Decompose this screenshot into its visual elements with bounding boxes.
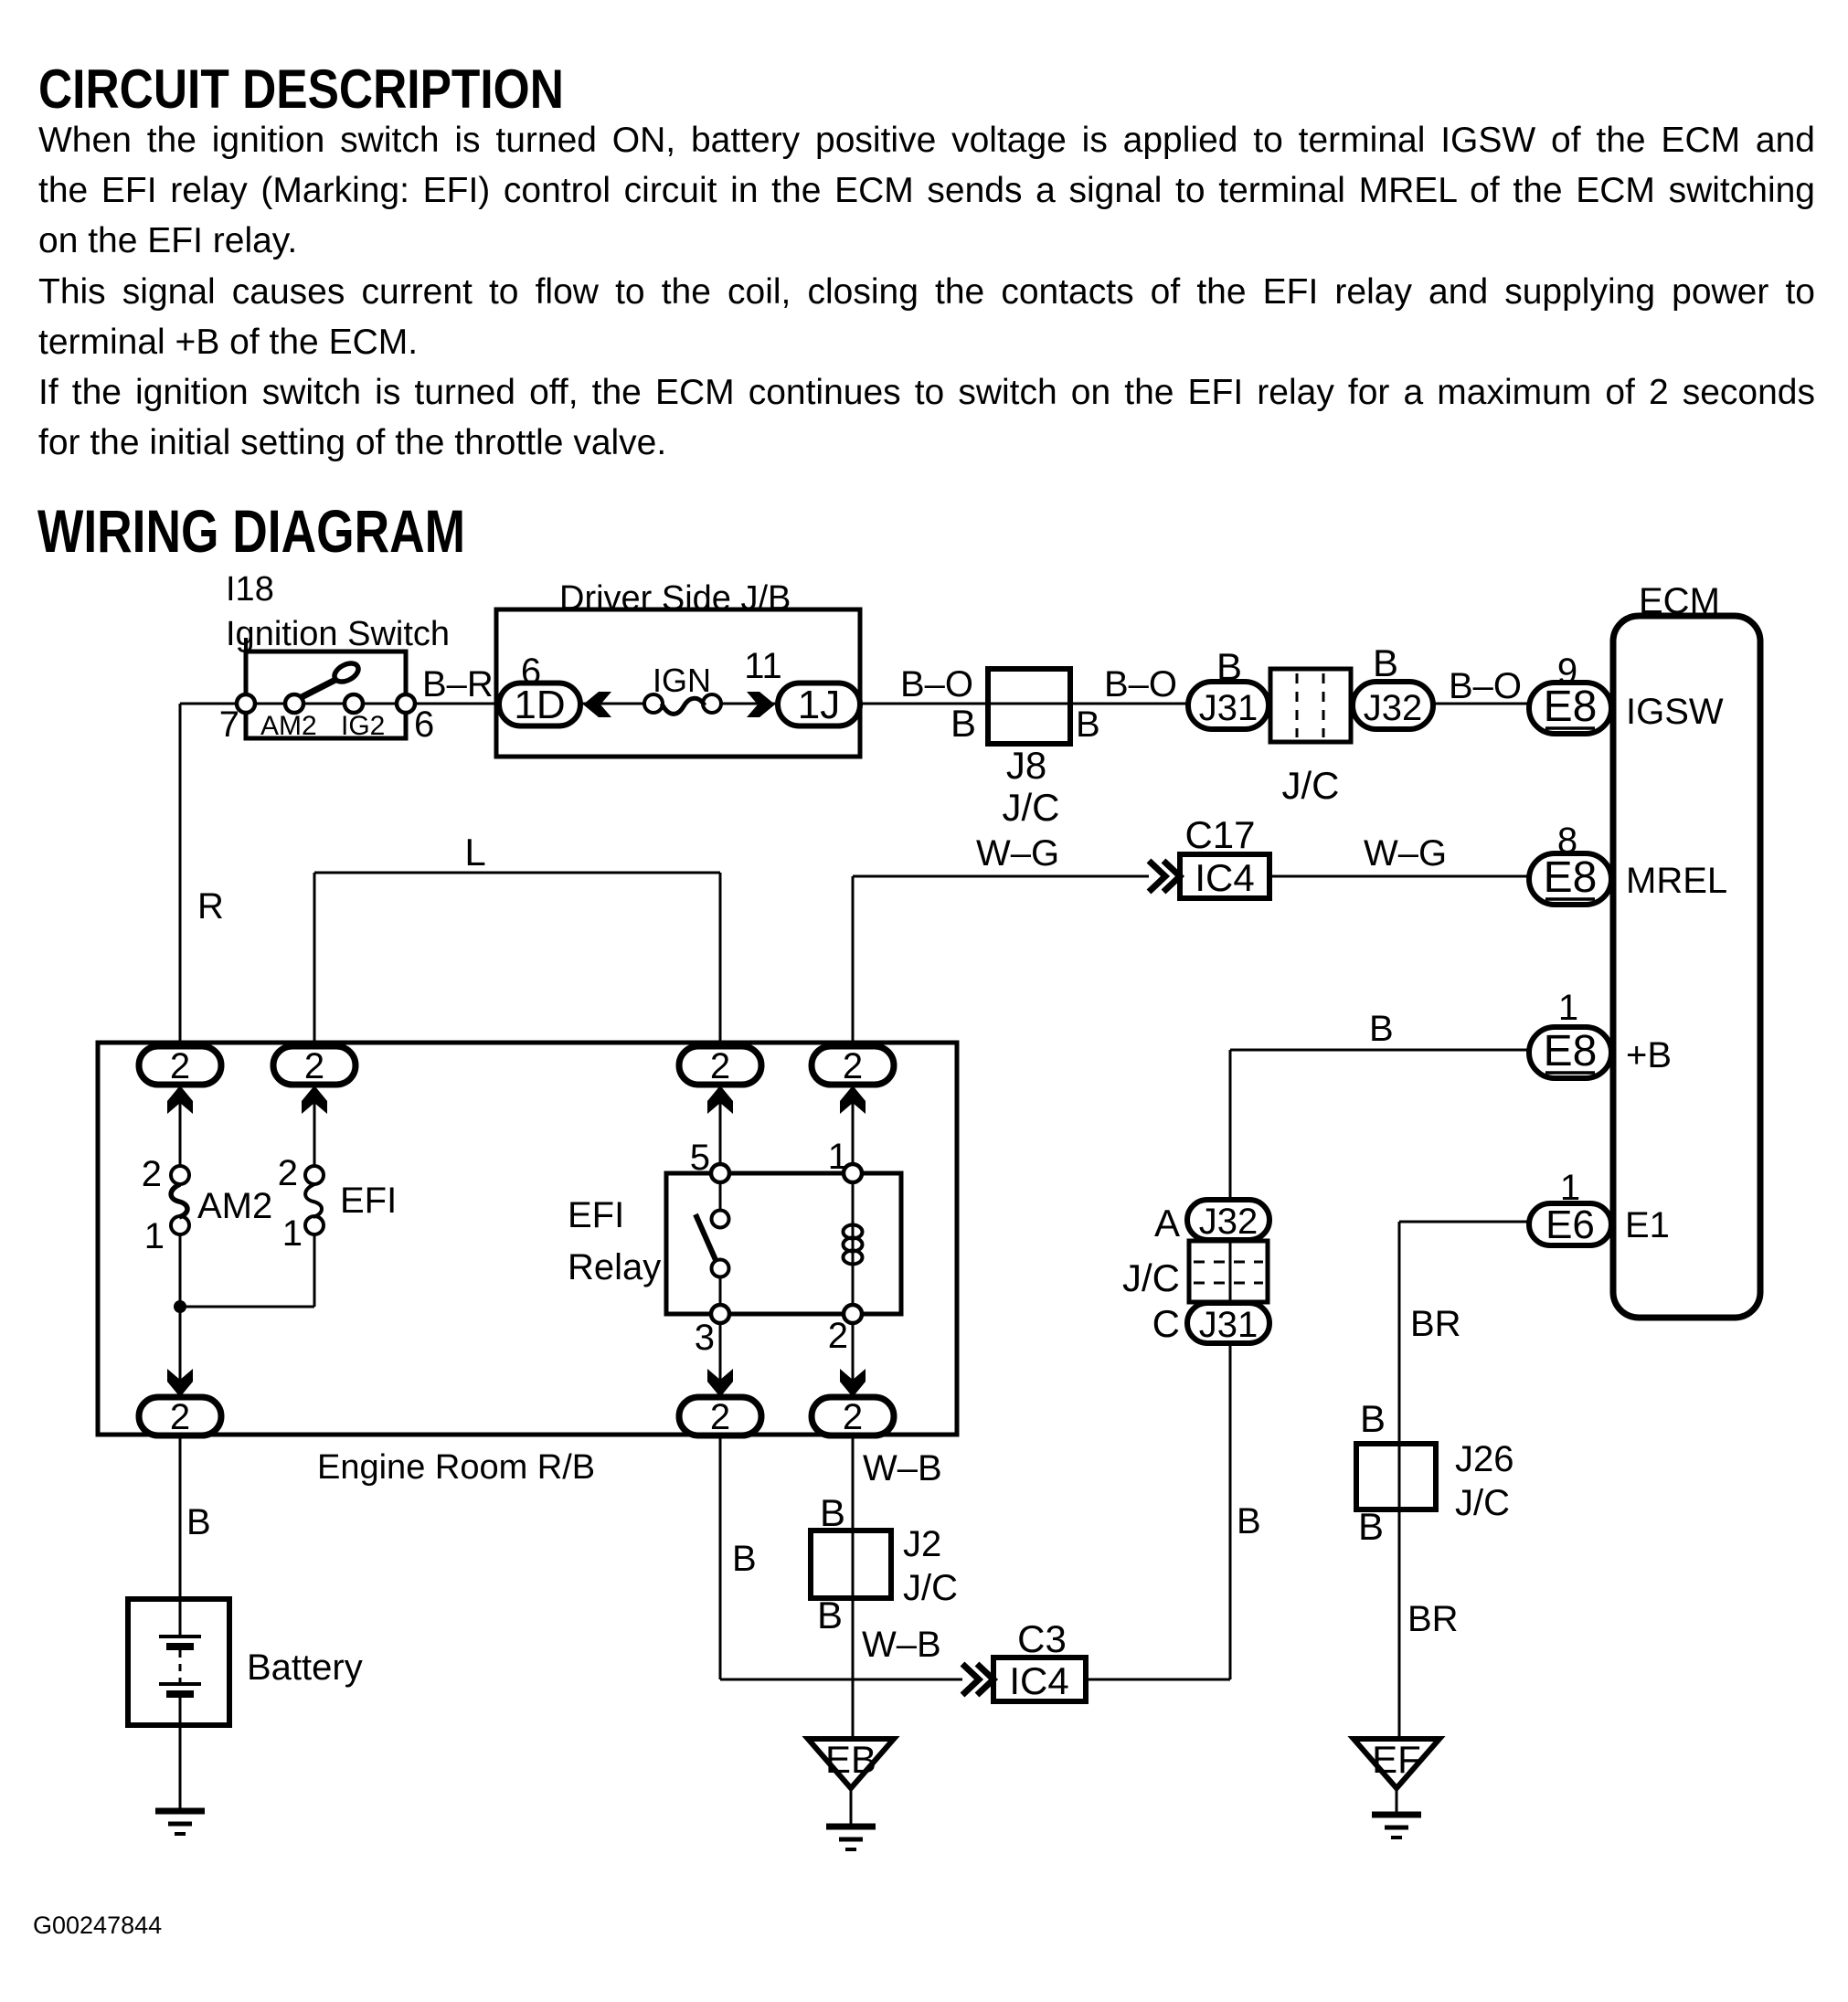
svg-text:J32: J32 [1364,688,1423,728]
svg-text:3: 3 [695,1318,715,1358]
svg-text:R: R [197,886,224,927]
svg-text:5: 5 [690,1138,710,1178]
svg-text:BR: BR [1410,1304,1461,1344]
svg-text:B–O: B–O [1104,664,1177,704]
svg-text:EF: EF [1372,1738,1421,1781]
svg-text:2: 2 [170,1397,190,1437]
svg-text:IGSW: IGSW [1626,692,1724,732]
svg-text:W–G: W–G [1364,833,1447,874]
svg-text:MREL: MREL [1626,861,1727,901]
svg-text:B: B [1373,641,1398,684]
svg-text:J26: J26 [1455,1439,1514,1479]
svg-text:W–B: W–B [863,1448,942,1488]
svg-text:B: B [1237,1501,1261,1541]
svg-text:B: B [732,1539,757,1579]
svg-text:2: 2 [142,1154,162,1194]
svg-text:Battery: Battery [247,1647,363,1688]
svg-text:J/C: J/C [1455,1483,1510,1523]
svg-text:W–G: W–G [976,833,1059,874]
svg-text:C: C [1152,1302,1180,1345]
svg-text:IC4: IC4 [1009,1659,1068,1702]
svg-text:I18: I18 [226,570,274,609]
svg-text:B: B [1360,1397,1386,1440]
svg-text:Relay: Relay [568,1247,661,1287]
svg-text:IGN: IGN [653,662,711,699]
svg-text:1: 1 [1560,1168,1580,1208]
svg-text:11: 11 [744,646,782,686]
svg-text:EB: EB [825,1738,876,1781]
svg-text:J/C: J/C [903,1568,958,1608]
svg-text:7: 7 [219,704,239,745]
svg-text:IC4: IC4 [1195,856,1254,899]
svg-text:J31: J31 [1199,688,1259,728]
svg-text:J32: J32 [1199,1202,1259,1242]
svg-text:E6: E6 [1545,1202,1595,1247]
svg-text:1J: 1J [798,683,840,727]
svg-text:2: 2 [170,1046,190,1086]
svg-text:8: 8 [1557,821,1577,861]
svg-text:L: L [464,831,485,874]
svg-text:J31: J31 [1199,1305,1259,1345]
svg-text:2: 2 [828,1316,848,1356]
svg-text:C17: C17 [1184,813,1255,856]
svg-text:AM2: AM2 [197,1186,272,1226]
svg-text:6: 6 [521,651,541,692]
svg-text:1: 1 [828,1137,848,1177]
svg-text:Ignition Switch: Ignition Switch [226,615,450,653]
svg-text:B: B [951,702,976,745]
svg-text:B–O: B–O [900,664,973,704]
svg-text:2: 2 [843,1046,863,1086]
svg-text:W–B: W–B [862,1625,941,1665]
svg-text:2: 2 [304,1046,324,1086]
svg-text:1: 1 [1558,988,1578,1028]
svg-text:6: 6 [414,704,434,745]
svg-text:1: 1 [144,1216,165,1256]
svg-text:9: 9 [1557,651,1577,692]
svg-text:J/C: J/C [1122,1256,1180,1299]
svg-text:Engine Room R/B: Engine Room R/B [317,1448,595,1487]
svg-text:BR: BR [1407,1599,1459,1639]
svg-text:AM2: AM2 [260,711,317,741]
svg-text:ECM: ECM [1639,581,1720,621]
svg-text:C3: C3 [1017,1617,1067,1660]
svg-text:EFI: EFI [340,1181,397,1221]
svg-text:1: 1 [282,1213,303,1254]
svg-text:J/C: J/C [1282,764,1340,807]
svg-text:B: B [1369,1009,1394,1049]
svg-text:J8: J8 [1006,744,1046,787]
svg-text:2: 2 [710,1046,730,1086]
svg-text:2: 2 [278,1153,298,1193]
svg-text:EFI: EFI [568,1195,624,1235]
svg-text:B: B [1216,645,1242,688]
svg-text:+B: +B [1626,1035,1672,1075]
svg-text:B: B [1076,704,1100,745]
svg-text:B: B [186,1502,211,1542]
svg-text:2: 2 [710,1397,730,1437]
svg-text:J2: J2 [903,1524,941,1564]
svg-text:Driver Side J/B: Driver Side J/B [559,579,791,618]
svg-text:J/C: J/C [1003,786,1060,829]
svg-text:E8: E8 [1544,1027,1598,1075]
svg-text:E1: E1 [1625,1205,1670,1245]
svg-text:B: B [820,1491,845,1534]
svg-text:B: B [1358,1505,1384,1548]
svg-text:IG2: IG2 [341,711,385,741]
svg-text:2: 2 [843,1397,863,1437]
svg-text:B–O: B–O [1449,666,1522,706]
svg-text:G00247844: G00247844 [33,1912,162,1939]
svg-text:A: A [1154,1202,1180,1245]
svg-text:B: B [817,1594,843,1637]
svg-text:B–R: B–R [422,664,494,704]
